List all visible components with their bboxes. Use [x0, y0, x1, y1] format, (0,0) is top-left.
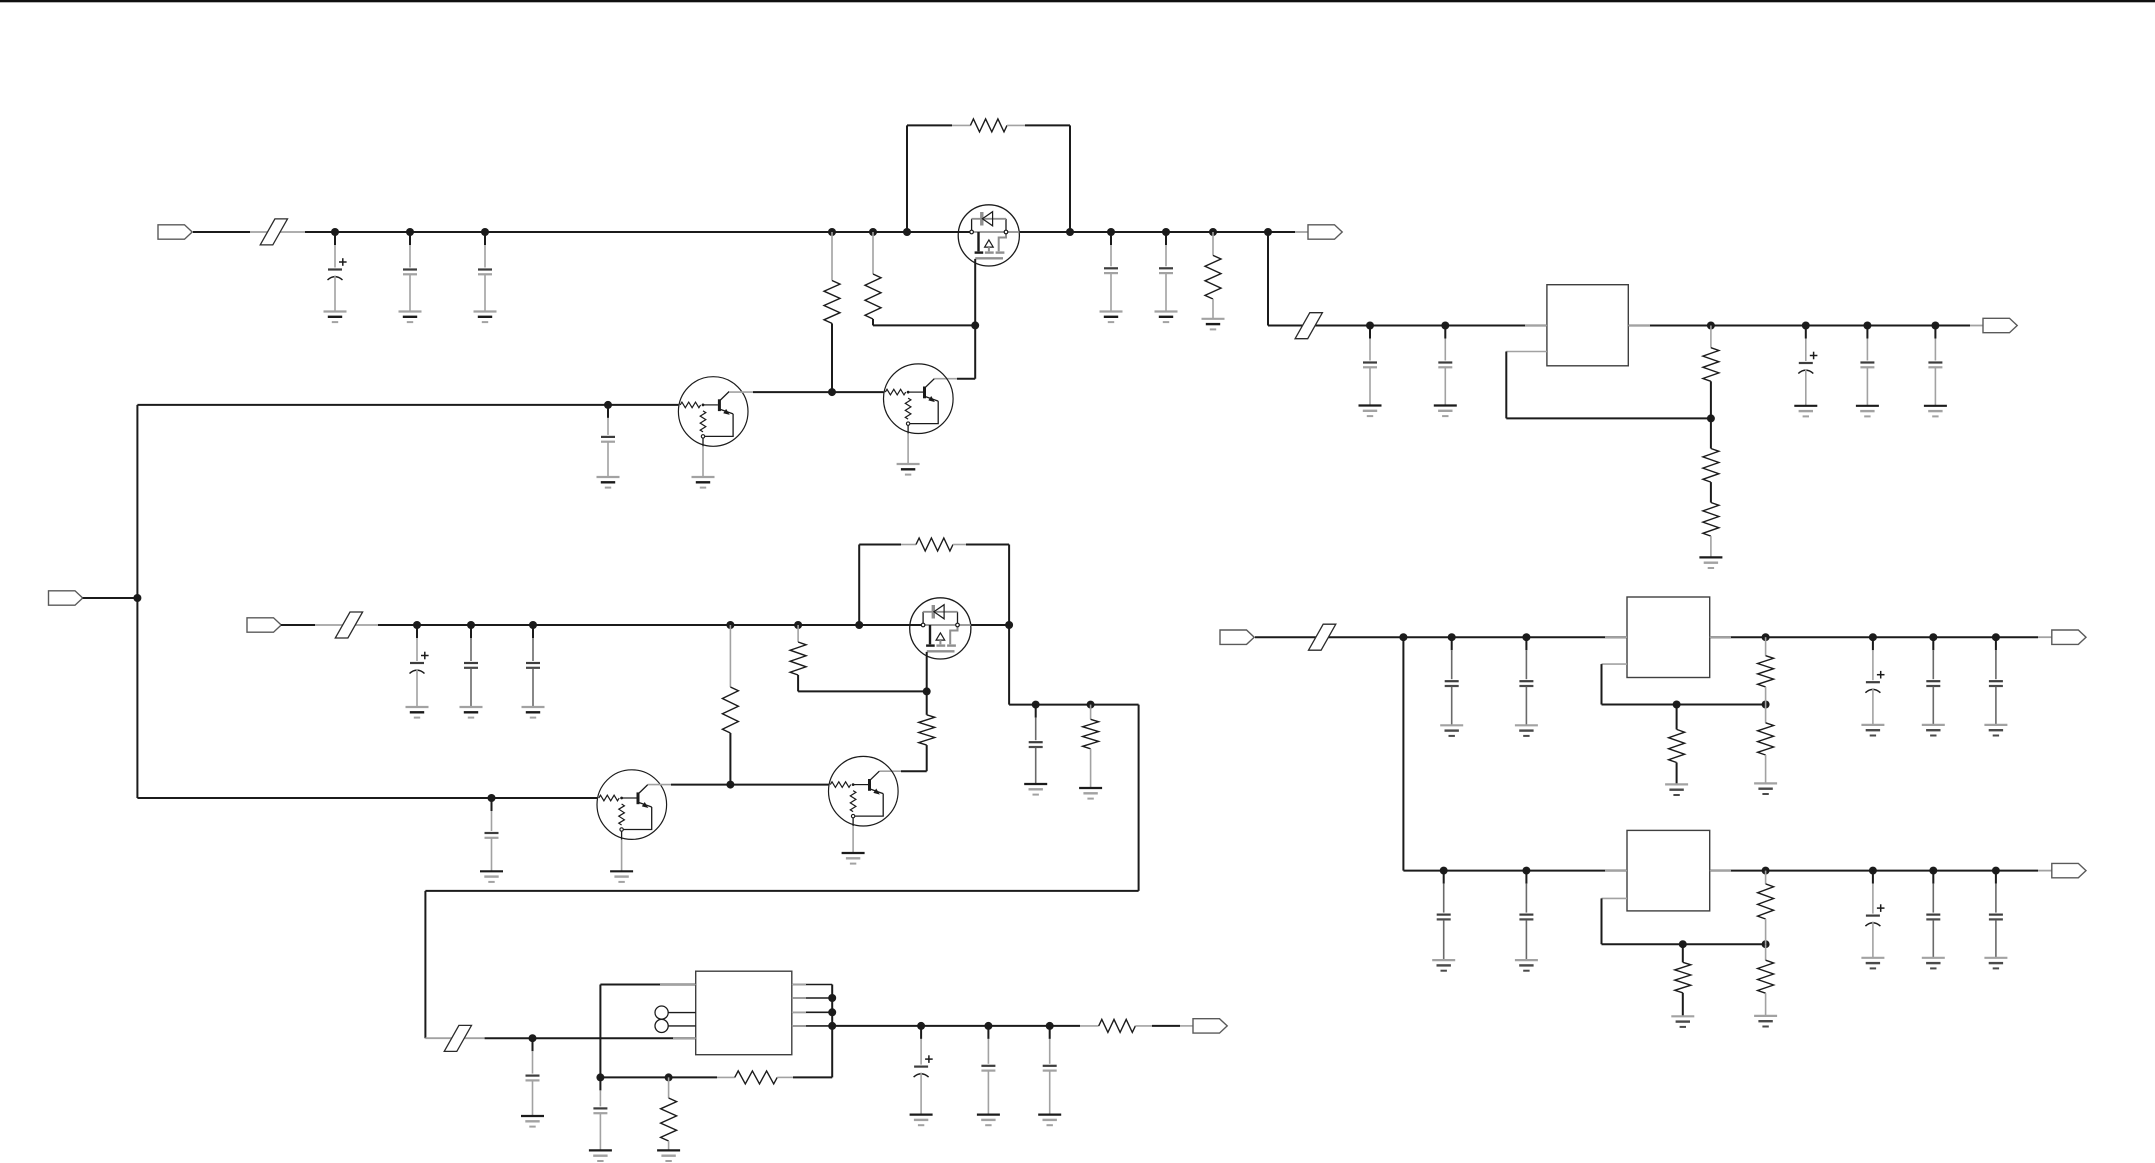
capacitor C20: [1043, 1026, 1057, 1115]
wire pins U2: [792, 985, 832, 1078]
capacitor C9: [1798, 326, 1817, 406]
junction: [1992, 867, 2000, 875]
bus entry BE1: [260, 219, 287, 245]
wire: [83, 597, 138, 599]
junction: [604, 401, 612, 409]
capacitor C4: [601, 405, 615, 477]
wire: [425, 1037, 484, 1039]
resistor R5: [1703, 326, 1719, 419]
junction: [665, 1073, 673, 1081]
resistor R21: [1758, 944, 1774, 1016]
bus entry BE4: [444, 1025, 471, 1051]
ground: [842, 853, 865, 864]
ground: [977, 1115, 1000, 1126]
junction: [984, 1022, 992, 1030]
resistor R6: [1703, 418, 1719, 502]
ground: [692, 477, 715, 488]
wire rail A: [305, 231, 972, 233]
ground: [1922, 958, 1945, 969]
junction: [1399, 633, 1407, 641]
resistor R19: [1675, 944, 1691, 1016]
junction: [1448, 633, 1456, 641]
resistor R3: [952, 119, 1025, 132]
junction: [488, 794, 496, 802]
wire: [193, 231, 305, 233]
wire base A: [137, 404, 678, 406]
capacitor C27: [1437, 871, 1451, 961]
capacitor C10: [1860, 326, 1874, 406]
capacitor C17: [526, 1038, 540, 1116]
junction: [413, 621, 421, 629]
wire switched out: [1009, 625, 1139, 705]
wire feedback U3: [1602, 664, 1766, 704]
resistor R14: [717, 1071, 793, 1084]
capacitor C13: [410, 625, 429, 707]
junction: [903, 228, 911, 236]
ground: [589, 1150, 612, 1161]
junction: [971, 321, 979, 329]
ground: [910, 1115, 933, 1126]
junction: [794, 621, 802, 629]
ground: [406, 707, 429, 718]
capacitor C12: [485, 798, 499, 871]
pin circle: [655, 1019, 696, 1032]
resistor R9: [790, 625, 806, 691]
junction: [726, 621, 734, 629]
capacitor C25: [1926, 637, 1940, 725]
junction: [1441, 322, 1449, 330]
wire rail E2 out: [1710, 870, 2052, 872]
wire: [1025, 125, 1070, 232]
wire: [1255, 636, 1345, 638]
junction: [529, 621, 537, 629]
capacitor C30: [1926, 871, 1940, 958]
wire: [648, 784, 829, 786]
wire pin stubs U4: [1605, 870, 1731, 872]
junction: [406, 228, 414, 236]
wire enable tee: [137, 405, 597, 798]
capacitor C16: [1029, 705, 1043, 784]
bus entry BE2: [1295, 313, 1322, 339]
ground: [657, 1150, 680, 1161]
capacitor C5: [1104, 232, 1118, 312]
wire: [729, 391, 883, 393]
wire feedback U1: [1506, 352, 1711, 419]
resistor R13: [1080, 1019, 1152, 1032]
capacitor C26: [1989, 637, 2003, 725]
capacitor C14: [464, 625, 478, 707]
capacitor C11: [1928, 326, 1942, 406]
ground: [1202, 319, 1225, 330]
wire rail A out: [1019, 231, 1308, 233]
capacitor C22: [1445, 637, 1459, 725]
junction: [923, 687, 931, 695]
junction: [1032, 701, 1040, 709]
junction: [1762, 940, 1770, 948]
resistor R18: [1758, 705, 1774, 784]
capacitor C21: [593, 1077, 607, 1150]
junction: [917, 1022, 925, 1030]
junction: [467, 621, 475, 629]
resistor R4: [1205, 232, 1221, 319]
wire pin stubs U3: [1605, 636, 1731, 638]
resistor R20: [1758, 871, 1774, 945]
wire feedback U4: [1602, 898, 1766, 944]
capacitor C28: [1519, 871, 1533, 961]
capacitor C23: [1519, 637, 1533, 725]
junction: [1869, 633, 1877, 641]
junction: [331, 228, 339, 236]
transistor Q3: [678, 377, 748, 447]
port P5 input: [247, 618, 281, 632]
wire: [621, 840, 623, 872]
junction: [1087, 701, 1095, 709]
resistor R10: [901, 538, 966, 551]
ground: [1922, 725, 1945, 736]
junction: [1863, 322, 1871, 330]
junction: [1707, 322, 1715, 330]
port P4 output: [1983, 318, 2017, 332]
wire rail D: [1330, 325, 1547, 327]
junction: [1162, 228, 1170, 236]
junction: [855, 621, 863, 629]
wire rail E1 out: [1710, 636, 2052, 638]
resistor R15: [661, 1077, 677, 1150]
capacitor C2: [403, 232, 417, 312]
junction: [1440, 867, 1448, 875]
ground: [1984, 725, 2007, 736]
junction: [828, 994, 836, 1002]
wire rail E2: [1403, 870, 1627, 872]
junction: [1522, 633, 1530, 641]
ground: [1359, 406, 1382, 417]
ground: [1984, 958, 2007, 969]
junction: [1264, 228, 1272, 236]
wire: [852, 826, 854, 853]
capacitor C8: [1438, 326, 1452, 406]
junction: [481, 228, 489, 236]
wire pin stubs U1: [1525, 325, 1650, 327]
wire: [798, 690, 927, 692]
wire rail C out: [832, 1025, 1080, 1027]
junction: [1762, 633, 1770, 641]
junction: [828, 1008, 836, 1016]
wire feedback U2: [600, 1076, 717, 1078]
wire drop E2: [1402, 637, 1404, 870]
resistor R8: [722, 625, 738, 785]
port P1 input: [158, 225, 192, 239]
junction: [133, 594, 141, 602]
ground: [1024, 784, 1047, 795]
wire gate Q4: [926, 652, 928, 715]
wire: [600, 985, 695, 1078]
wire: [1268, 232, 1330, 326]
ground: [1155, 312, 1178, 323]
ground: [597, 477, 620, 488]
capacitor C29: [1865, 871, 1884, 958]
ground: [522, 707, 545, 718]
capacitor C1: [328, 232, 347, 312]
junction: [869, 228, 877, 236]
ground: [1432, 960, 1455, 971]
wire: [879, 770, 926, 772]
wire rail D out: [1628, 325, 1983, 327]
port P2 enable: [49, 591, 83, 605]
bus entry BE5: [1309, 624, 1336, 650]
capacitor C7: [1363, 326, 1377, 406]
regulator U2: [696, 971, 792, 1054]
capacitor C19: [981, 1026, 995, 1115]
ground: [521, 1116, 544, 1127]
ground: [399, 312, 422, 323]
ground: [1856, 406, 1879, 417]
regulator U4: [1627, 830, 1710, 911]
resistor R1: [824, 232, 840, 392]
wire: [281, 624, 378, 626]
junction: [828, 388, 836, 396]
ground: [1754, 783, 1777, 794]
ground: [1671, 1016, 1694, 1027]
junction: [1802, 322, 1810, 330]
port P3 output: [1308, 225, 1342, 239]
junction: [1005, 621, 1013, 629]
wire rail B: [378, 624, 923, 626]
capacitor C24: [1865, 637, 1884, 725]
junction: [828, 1022, 836, 1030]
junction: [596, 1073, 604, 1081]
junction: [1066, 228, 1074, 236]
ground: [460, 707, 483, 718]
capacitor C18: [914, 1026, 933, 1115]
transistor Q1 PMOS: [958, 205, 1019, 266]
junction: [1762, 701, 1770, 709]
junction: [1762, 867, 1770, 875]
junction: [1522, 867, 1530, 875]
ground: [1699, 557, 1722, 568]
ground: [1515, 960, 1538, 971]
wire: [907, 125, 952, 232]
capacitor C3: [478, 232, 492, 312]
ground: [1100, 312, 1123, 323]
junction: [1869, 867, 1877, 875]
transistor Q4 PMOS: [910, 598, 971, 659]
regulator U1: [1547, 285, 1628, 366]
wire rail C: [485, 1037, 696, 1039]
resistor R11: [919, 715, 935, 771]
ground: [480, 871, 503, 882]
transistor Q2: [884, 364, 954, 434]
wire: [934, 378, 975, 380]
junction: [1707, 414, 1715, 422]
junction: [1931, 322, 1939, 330]
pin circle: [655, 1006, 696, 1019]
wire long return: [425, 705, 1138, 1039]
wire: [793, 1076, 832, 1078]
wire: [702, 446, 704, 477]
junction: [1673, 701, 1681, 709]
junction: [1679, 940, 1687, 948]
ground: [324, 312, 347, 323]
ground: [1794, 406, 1817, 417]
resistor R12: [1083, 705, 1099, 788]
resistor R7: [1703, 503, 1719, 558]
ground: [1861, 725, 1884, 736]
ground: [1861, 958, 1884, 969]
junction: [828, 228, 836, 236]
wire rail B out: [971, 624, 1009, 626]
junction: [726, 781, 734, 789]
wire: [1152, 1025, 1193, 1027]
junction: [1209, 228, 1217, 236]
ground: [1665, 784, 1688, 795]
junction: [1929, 867, 1937, 875]
bus entry BE3: [335, 612, 362, 638]
port P7 input: [1220, 630, 1254, 644]
junction: [1046, 1022, 1054, 1030]
ground: [1924, 406, 1947, 417]
wire gate Q1: [974, 259, 976, 379]
junction: [1929, 633, 1937, 641]
ground: [897, 464, 920, 475]
capacitor C6: [1159, 232, 1173, 312]
port P9 output: [2052, 863, 2086, 877]
ground: [1434, 406, 1457, 417]
transistor Q6: [597, 770, 667, 840]
junction: [1366, 322, 1374, 330]
ground: [474, 312, 497, 323]
wire: [859, 545, 901, 626]
transistor Q5: [829, 756, 899, 826]
junction: [1992, 633, 2000, 641]
port P6 output: [1193, 1019, 1227, 1033]
ground: [1440, 725, 1463, 736]
junction: [529, 1034, 537, 1042]
ground: [1079, 788, 1102, 799]
capacitor C31: [1989, 871, 2003, 958]
resistor R2: [865, 232, 881, 325]
wire rail E1: [1345, 636, 1627, 638]
wire pin stubs U2: [660, 985, 806, 1039]
wire: [907, 434, 909, 464]
junction: [1107, 228, 1115, 236]
regulator U3: [1627, 597, 1710, 678]
capacitor C15: [526, 625, 540, 707]
port P8 output: [2052, 630, 2086, 644]
ground: [610, 871, 633, 882]
wire: [873, 324, 975, 326]
resistor R16: [1669, 705, 1685, 785]
ground: [1038, 1115, 1061, 1126]
ground: [1754, 1016, 1777, 1027]
wire: [966, 545, 1009, 626]
ground: [1515, 725, 1538, 736]
resistor R17: [1758, 637, 1774, 704]
